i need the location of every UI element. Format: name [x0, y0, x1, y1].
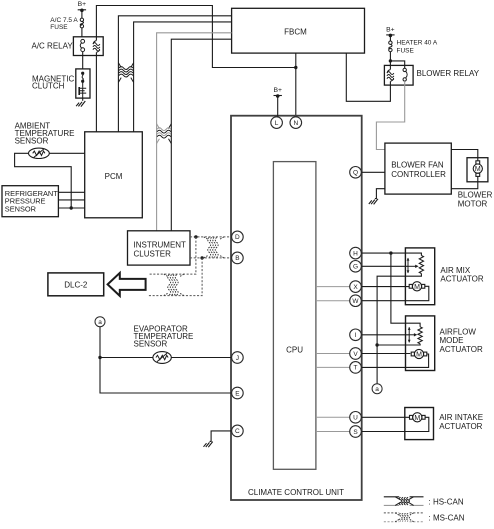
wire: blower motor return — [451, 177, 478, 189]
label BLOWER MOTOR — [458, 191, 493, 209]
wire: feed to blower relay contact — [390, 61, 404, 68]
junction: relay node on N wire — [294, 66, 297, 69]
pin E — [232, 387, 244, 399]
svg-text:CLUSTER: CLUSTER — [134, 250, 172, 259]
svg-text:ACTUATOR: ACTUATOR — [440, 275, 483, 284]
wire: blower relay coil to FBCM — [346, 53, 390, 101]
svg-text:M: M — [414, 415, 420, 422]
wire: B+ to heater fuse — [389, 36, 391, 41]
svg-text:SENSOR: SENSOR — [5, 204, 36, 213]
svg-text:BLOWER RELAY: BLOWER RELAY — [417, 69, 480, 78]
svg-text:HEATER 40 A: HEATER 40 A — [397, 40, 438, 47]
twist (dashed MS-CAN D/B pair) — [204, 237, 224, 258]
magnetic clutch internals — [79, 72, 86, 99]
svg-text:I: I — [355, 332, 357, 339]
blower relay contact — [403, 68, 407, 81]
fuse A/C 7.5 A — [80, 18, 83, 28]
air mix actuator box — [405, 248, 434, 305]
svg-text:BLOWER FAN: BLOWER FAN — [391, 160, 444, 169]
wire: air mix resistor to a-node trunk — [377, 274, 421, 346]
wire: evaporator sensor to J pin — [100, 357, 232, 359]
airflow mode wiper — [408, 327, 418, 343]
blower relay coil — [387, 70, 394, 82]
label EVAPORATOR TEMPERATURE SENSOR — [134, 325, 194, 349]
pin T — [350, 362, 362, 374]
svg-text:CLUTCH: CLUTCH — [32, 82, 65, 91]
label MAGNETIC CLUTCH — [32, 74, 74, 90]
junction: MS-CAN branch D — [194, 235, 197, 238]
legend MS-CAN wire pair — [384, 512, 424, 514]
ground (magnetic clutch) — [76, 101, 85, 107]
svg-text:: MS-CAN: : MS-CAN — [429, 514, 465, 523]
wire: ambient sensor to PCM — [49, 152, 84, 154]
svg-text:SENSOR: SENSOR — [134, 339, 168, 348]
FBCM box — [232, 8, 365, 53]
pin C — [232, 425, 244, 437]
svg-text:N: N — [293, 120, 298, 127]
svg-text:AIRFLOW: AIRFLOW — [440, 327, 477, 336]
DLC-2 box — [48, 273, 104, 296]
dashed wire: cluster to D pin — [190, 236, 232, 238]
junction: blower relay feed — [389, 59, 392, 62]
air mix motor M2 — [409, 282, 425, 291]
battery feed B+ (CCU) — [273, 87, 282, 98]
A/C relay box — [73, 37, 103, 56]
A/C relay contact — [80, 39, 84, 51]
wire: A/C relay coil top to FBCM node — [96, 6, 295, 68]
svg-text:MOTOR: MOTOR — [458, 199, 488, 208]
connector a (left) — [95, 317, 105, 327]
svg-text:W: W — [352, 298, 359, 305]
arrow to DLC-2 — [108, 273, 146, 296]
svg-text:H: H — [353, 250, 358, 257]
junction: evaporator sensor node — [98, 356, 101, 359]
svg-text:U: U — [353, 415, 358, 422]
wire: H branch down to airflow resistor — [391, 253, 420, 327]
wire: HS-CAN 1 FBCM to PCM — [118, 16, 231, 132]
svg-text:a: a — [375, 386, 379, 393]
svg-text:G: G — [353, 264, 358, 271]
ambient temperature sensor — [29, 148, 50, 158]
connector a (right) — [372, 384, 382, 394]
pin U — [350, 412, 362, 424]
wire: airflow resistor to a-node — [377, 344, 420, 345]
twist (dashed DLC-2 pair) — [164, 274, 184, 296]
pin Q — [350, 167, 362, 179]
svg-text:V: V — [353, 351, 358, 358]
airflow mode actuator box — [406, 316, 435, 371]
wire: S pin to air intake motor return — [356, 417, 429, 431]
svg-text:FUSE: FUSE — [397, 48, 415, 55]
svg-text:B+: B+ — [273, 87, 282, 94]
svg-text:L: L — [275, 120, 279, 127]
wire: T pin to airflow motor return — [356, 354, 429, 367]
label AIR INTAKE ACTUATOR — [439, 413, 483, 431]
dashed wire: cluster to B pin — [190, 257, 232, 259]
wire: ambient sensor return loop — [15, 153, 72, 208]
svg-text:S: S — [353, 429, 358, 436]
airflow mode motor M3 — [411, 349, 427, 358]
svg-text:T: T — [354, 365, 358, 372]
pin D — [232, 231, 244, 243]
A/C relay coil — [93, 41, 100, 53]
svg-text:Q: Q — [353, 170, 358, 177]
wire: B+ to L pin — [277, 96, 279, 117]
wire: MS-CAN 2 FBCM to instrument cluster — [171, 39, 231, 231]
wire: CPU to X pin — [316, 286, 350, 288]
svg-text:X: X — [353, 284, 358, 291]
svg-text:B: B — [235, 255, 239, 262]
wire: connector a to junction — [99, 327, 101, 358]
svg-text:FBCM: FBCM — [284, 28, 307, 37]
ground (C pin) — [204, 442, 213, 448]
wire: fuse to A/C relay — [81, 28, 83, 37]
legend MS-CAN twist — [395, 513, 413, 522]
label AIRFLOW MODE ACTUATOR — [440, 327, 483, 354]
airflow mode resistor — [418, 327, 422, 344]
wire: MS-CAN 1 FBCM to instrument cluster — [157, 33, 232, 231]
air mix resistor — [419, 256, 423, 274]
svg-text:CONTROLLER: CONTROLLER — [391, 170, 446, 179]
wire: B+ to A/C fuse — [81, 11, 83, 19]
svg-text:B+: B+ — [386, 26, 395, 33]
svg-text:J: J — [236, 355, 239, 362]
wire: sensor return to E pin — [100, 358, 232, 394]
svg-text:a: a — [98, 319, 102, 326]
svg-text:AIR MIX: AIR MIX — [440, 266, 470, 275]
svg-text:A/C 7.5 A: A/C 7.5 A — [50, 17, 78, 24]
wire: I pin to airflow wiper — [356, 334, 410, 336]
pin I — [350, 329, 362, 341]
blower relay box — [384, 65, 413, 85]
svg-text:M: M — [475, 166, 481, 173]
pin G — [350, 261, 362, 273]
svg-text:B+: B+ — [78, 1, 87, 8]
fuse HEATER 40 A — [389, 41, 392, 52]
wire: C pin to ground — [210, 431, 232, 442]
svg-text:FUSE: FUSE — [50, 24, 68, 31]
svg-text:C: C — [235, 428, 240, 435]
junction: MS-CAN branch B — [200, 256, 203, 259]
svg-text:INSTRUMENT: INSTRUMENT — [134, 241, 187, 250]
instrument cluster box — [128, 231, 191, 265]
wire: FBCM to N pin — [295, 53, 297, 117]
wire: HS-CAN 2 FBCM to PCM — [134, 22, 232, 132]
wire: CPU to S pin — [316, 431, 350, 433]
wire: W pin to air mix motor return — [356, 286, 429, 300]
CPU box — [273, 162, 316, 470]
wire: refrigerant sensor line 2 — [58, 199, 84, 201]
svg-text:: HS-CAN: : HS-CAN — [429, 498, 464, 507]
svg-text:ACTUATOR: ACTUATOR — [439, 422, 482, 431]
svg-text:PCM: PCM — [105, 172, 123, 181]
svg-text:MODE: MODE — [440, 336, 464, 345]
wire: refrigerant sensor line 3 — [58, 207, 84, 209]
wire: CPU to U pin — [316, 416, 350, 418]
wire: blower relay contact to blower fan controller — [376, 81, 404, 149]
svg-text:M: M — [416, 352, 422, 359]
svg-text:AIR INTAKE: AIR INTAKE — [439, 413, 483, 422]
pin H — [350, 247, 362, 259]
wire: CPU to V pin — [316, 353, 350, 355]
magnetic clutch box — [76, 69, 90, 98]
svg-text:SENSOR: SENSOR — [15, 136, 49, 145]
wire: A/C relay contact to magnetic clutch — [82, 52, 84, 69]
wire: blower fan controller to ground — [375, 189, 385, 199]
pin W — [350, 295, 362, 307]
PCM box — [85, 132, 143, 218]
svg-text:A/C RELAY: A/C RELAY — [32, 41, 74, 50]
wire: blower fan controller to blower motor — [451, 150, 478, 161]
wire: CPU to T pin — [316, 366, 350, 368]
climate control unit box — [231, 116, 362, 500]
junction: H branch — [389, 251, 392, 254]
svg-text:DLC-2: DLC-2 — [64, 280, 88, 289]
blower motor box — [467, 158, 488, 182]
label REFRIGERANT PRESSURE SENSOR — [5, 189, 58, 214]
pin V — [350, 348, 362, 360]
junction: ambient return on line 3 — [70, 206, 73, 209]
wire: H pin to air mix resistor — [356, 253, 422, 255]
evaporator temperature sensor — [153, 352, 171, 364]
blower fan controller box — [385, 143, 451, 194]
refrigerant pressure sensor box — [2, 186, 58, 217]
pin S — [350, 426, 362, 438]
wire: refrigerant sensor line 1 — [58, 191, 84, 193]
pin L — [271, 117, 283, 129]
svg-text:CLIMATE CONTROL UNIT: CLIMATE CONTROL UNIT — [248, 488, 344, 497]
wire: X pin to air mix motor — [356, 286, 411, 288]
ground (blower fan controller) — [369, 199, 378, 205]
svg-text:ACTUATOR: ACTUATOR — [440, 345, 483, 354]
wire: magnetic clutch to ground — [82, 98, 84, 101]
battery feed B+ (A/C fuse) — [78, 1, 87, 12]
wire: Q pin to blower fan controller — [356, 171, 385, 173]
label HEATER 40 A FUSE — [397, 40, 438, 55]
pin X — [350, 281, 362, 293]
wire: V pin to airflow motor — [356, 353, 411, 355]
air intake motor M4 — [410, 413, 426, 422]
pin N — [290, 117, 302, 129]
legend HS-CAN wire pair — [384, 496, 424, 498]
label INSTRUMENT CLUSTER — [134, 241, 187, 259]
blower motor M1 — [473, 161, 482, 177]
wire: trunk to connector a — [376, 345, 378, 384]
wire: U pin to air intake motor — [356, 416, 411, 418]
label A/C 7.5 A FUSE — [50, 17, 78, 31]
dashed wire: B branch to DLC-2 — [149, 258, 202, 296]
wire: CPU to W pin — [316, 300, 350, 302]
svg-text:E: E — [235, 390, 240, 397]
wire: heater fuse to blower relay coil — [389, 52, 391, 70]
legend HS-CAN twist — [395, 497, 413, 506]
pin J — [232, 352, 244, 364]
svg-text:D: D — [235, 234, 240, 241]
wire: A/C relay coil bottom to PCM — [95, 53, 97, 132]
label BLOWER FAN CONTROLLER — [391, 160, 446, 179]
junction: a-node trunk — [375, 343, 378, 346]
twist (HS-CAN pair to PCM) — [118, 63, 133, 83]
label AMBIENT TEMPERATURE SENSOR — [15, 122, 75, 146]
battery feed B+ (heater fuse) — [386, 26, 395, 37]
twist (pair to instrument cluster) — [157, 124, 172, 144]
label AIR MIX ACTUATOR — [440, 266, 483, 284]
dashed wire: D branch to DLC-2 — [149, 237, 196, 274]
air intake actuator box — [405, 408, 434, 440]
svg-text:BLOWER: BLOWER — [458, 191, 493, 200]
wire: G pin to air mix wiper — [356, 265, 409, 267]
svg-text:M: M — [414, 284, 420, 291]
pin B — [232, 252, 244, 264]
svg-text:CPU: CPU — [286, 346, 303, 355]
air mix wiper — [407, 258, 419, 274]
